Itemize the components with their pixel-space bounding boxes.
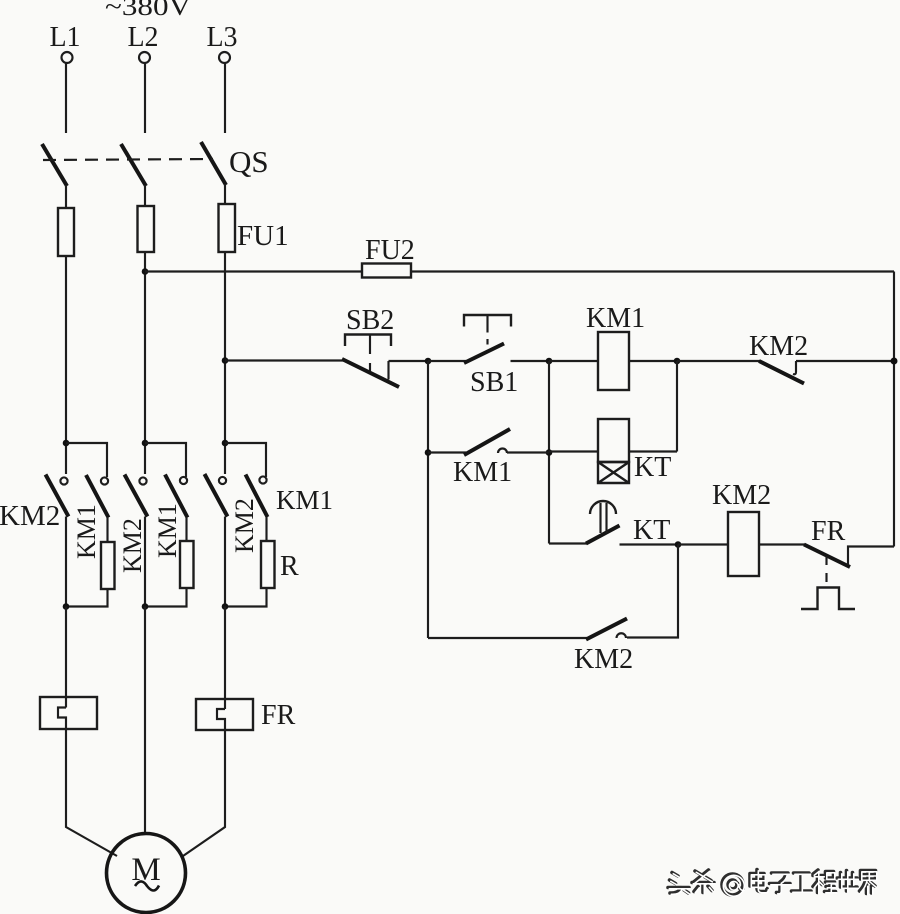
svg-text:FU1: FU1 bbox=[237, 220, 289, 252]
resistor branch2 bbox=[180, 541, 194, 588]
pushbutton SB2 NC blade bbox=[342, 359, 399, 387]
contact KM2 NC aux blade bbox=[586, 619, 627, 640]
wire L1 drop bbox=[65, 64, 67, 134]
contact FR stub bbox=[848, 547, 894, 565]
terminal L3 bbox=[219, 52, 230, 63]
svg-text:R: R bbox=[280, 551, 299, 582]
wire branch2 bottom bbox=[145, 588, 187, 607]
wire main2 lower bbox=[144, 517, 146, 607]
contact KT delayed blade bbox=[586, 526, 620, 544]
node L3 control tap bbox=[222, 357, 229, 364]
coil KT bbox=[598, 419, 629, 462]
wire QS1 to FU1a bbox=[65, 185, 67, 208]
junction right rail node bbox=[891, 358, 898, 365]
wire branch3 top bbox=[225, 443, 266, 477]
svg-text:FR: FR bbox=[261, 700, 296, 731]
contact KM2 main 3 fixed circle bbox=[219, 477, 226, 484]
FR heater box 2 bbox=[196, 699, 253, 730]
motor tilde bbox=[135, 881, 159, 890]
svg-text:KM2: KM2 bbox=[0, 500, 60, 532]
fuse FU2 bbox=[362, 264, 411, 278]
contact KM2 NC stub bbox=[793, 361, 796, 374]
svg-text:~380V: ~380V bbox=[105, 0, 191, 21]
wire L1 fuse to contact bank bbox=[65, 256, 67, 474]
pushbutton SB2 cap bbox=[345, 335, 391, 347]
junction main L3 bottom bbox=[222, 603, 229, 610]
junction main L2 bottom bbox=[142, 603, 149, 610]
contact KM2 main 2 fixed circle bbox=[139, 477, 146, 484]
wire vertical node B down bbox=[548, 361, 550, 544]
wire KT coil to vertical bbox=[629, 450, 677, 452]
FR heater box 1 bbox=[40, 697, 97, 729]
pushbutton SB2 fixed stub bbox=[387, 361, 389, 380]
wire vertical node C down bbox=[676, 361, 678, 452]
resistor branch1 bbox=[101, 542, 115, 589]
wire main1 lower bbox=[65, 517, 67, 607]
wire L3 fuse to contact bank bbox=[224, 252, 226, 474]
wire node A to SB1 bbox=[428, 360, 466, 362]
wire branch3 to resistor bbox=[265, 517, 267, 541]
wire node E corner to KT contact bbox=[549, 542, 587, 544]
wire L3 to FR heater bbox=[224, 607, 226, 710]
wire SB1 to node B bbox=[511, 360, 550, 362]
junction node A bbox=[425, 358, 432, 365]
junction node B bbox=[546, 358, 553, 365]
contact KT delay stems bbox=[601, 503, 607, 533]
contact KM1 branch2 fixed circle bbox=[180, 477, 187, 484]
terminal L1 bbox=[62, 52, 73, 63]
fuse FU1 a bbox=[58, 208, 74, 256]
contact KM2 NC blade bbox=[759, 361, 804, 384]
wire row D left bbox=[428, 637, 587, 639]
wire branch2 to resistor bbox=[185, 517, 187, 541]
wire branch1 top bbox=[66, 443, 107, 477]
wire KM2 coil to FR bbox=[759, 543, 805, 545]
wire L3 tap to SB2 bbox=[225, 359, 344, 361]
wire branch1 bottom bbox=[66, 589, 108, 607]
fuse FU1 b bbox=[138, 206, 155, 252]
wire node D to KM1 aux bbox=[428, 451, 466, 453]
switch QS blade 3 bbox=[201, 142, 226, 185]
wire node F to KM2 coil bbox=[678, 543, 728, 545]
QS linkage dashed line bbox=[43, 159, 213, 160]
pushbutton SB2 plunger bbox=[369, 335, 371, 372]
node L2 control tap bbox=[142, 268, 149, 275]
coil KT delay box bbox=[598, 462, 629, 483]
contact KM2 main 3 blade bbox=[205, 474, 228, 517]
svg-text:KM1: KM1 bbox=[72, 504, 101, 559]
contact KM2 aux fixed arc bbox=[617, 633, 627, 638]
switch QS blade 1 bbox=[42, 144, 67, 186]
junction node F bbox=[675, 541, 682, 548]
contact KM1 branch1 blade bbox=[86, 475, 109, 518]
pushbutton SB1 cap bbox=[464, 315, 511, 327]
wire KM2 NC to right rail bbox=[796, 360, 894, 362]
svg-text:KT: KT bbox=[634, 452, 671, 483]
wire main3 lower bbox=[224, 517, 226, 607]
wire node E to KT coil bbox=[549, 450, 598, 452]
svg-text:KM1: KM1 bbox=[276, 485, 333, 515]
svg-text:QS: QS bbox=[229, 144, 269, 179]
contact KM1 aux fixed arc bbox=[498, 449, 507, 454]
wire KM1 coil to node C bbox=[629, 360, 677, 362]
contact FR NC blade bbox=[804, 545, 850, 568]
svg-text:KM2: KM2 bbox=[749, 331, 808, 362]
svg-text:L3: L3 bbox=[206, 22, 237, 53]
contact KM1 branch1 fixed circle bbox=[101, 477, 108, 484]
FR heater element 2 bbox=[217, 709, 225, 730]
svg-text:SB2: SB2 bbox=[346, 305, 394, 336]
wire L3 drop bbox=[224, 64, 226, 134]
switch QS blade 2 bbox=[121, 144, 146, 186]
svg-text:SB1: SB1 bbox=[470, 367, 518, 398]
wire KM1 aux to node E bbox=[507, 451, 549, 453]
motor M circle bbox=[107, 834, 186, 913]
contact KM1 branch3 fixed circle bbox=[259, 476, 266, 483]
contact KT delay dome bbox=[590, 501, 616, 514]
contact FR reset symbol bbox=[801, 588, 855, 610]
wire branch1 to resistor bbox=[106, 517, 108, 542]
contact KM2 main 2 blade bbox=[125, 475, 148, 517]
contact KM2 main 1 blade bbox=[46, 475, 69, 517]
svg-text:KM2: KM2 bbox=[230, 498, 259, 553]
wire QS3 to FU1c bbox=[224, 184, 226, 204]
junction main L3 top bbox=[222, 440, 229, 447]
wire KT contact to node F bbox=[620, 543, 679, 545]
svg-text:KM2: KM2 bbox=[574, 644, 633, 675]
wire L3 heater to motor bbox=[183, 730, 225, 856]
junction node D bbox=[425, 449, 432, 456]
contact KM1 branch2 blade bbox=[165, 475, 188, 518]
wire node C to KM2 NC bbox=[677, 360, 760, 362]
svg-text:FR: FR bbox=[811, 516, 846, 547]
svg-text:KM2: KM2 bbox=[712, 480, 771, 511]
junction main L1 bottom bbox=[63, 603, 70, 610]
contact KM1 NO aux blade bbox=[464, 429, 510, 455]
coil KM1 bbox=[598, 332, 629, 390]
wire branch2 top bbox=[145, 443, 186, 477]
resistor branch3 R bbox=[261, 541, 275, 588]
wire node B to KM1 coil bbox=[549, 360, 598, 362]
svg-text:L2: L2 bbox=[127, 22, 158, 53]
wire vertical node A down bbox=[427, 361, 429, 638]
contact KM1 branch3 blade bbox=[246, 475, 268, 518]
wire control top row right bbox=[411, 270, 894, 272]
terminal L2 bbox=[139, 52, 150, 63]
pushbutton SB1 NO blade bbox=[464, 344, 504, 364]
junction node E bbox=[546, 449, 553, 456]
svg-text:KM1: KM1 bbox=[153, 503, 182, 558]
svg-text:L1: L1 bbox=[49, 22, 80, 53]
svg-text:KM1: KM1 bbox=[586, 303, 645, 334]
wire L2 drop bbox=[144, 64, 146, 134]
contact KM2 main 1 fixed circle bbox=[60, 477, 67, 484]
wire QS2 to FU1b bbox=[144, 185, 146, 206]
fuse FU1 c bbox=[219, 204, 236, 252]
coil KM2 bbox=[728, 512, 759, 576]
wire L2 fuse to contact bank bbox=[144, 252, 146, 474]
wire SB2 to node bbox=[389, 360, 429, 362]
wire L1 heater to motor bbox=[66, 729, 117, 856]
FR heater element 1 bbox=[58, 708, 66, 730]
junction node C bbox=[674, 358, 681, 365]
junction main L2 top bbox=[142, 440, 149, 447]
wire control top row left bbox=[145, 270, 362, 272]
wire branch3 bottom bbox=[225, 588, 267, 607]
wire L2 to motor bbox=[144, 607, 146, 835]
junction main L1 top bbox=[63, 440, 70, 447]
svg-text:KM2: KM2 bbox=[118, 518, 147, 573]
wire right rail bbox=[893, 272, 895, 547]
svg-text:KT: KT bbox=[633, 515, 670, 546]
wire row D right bbox=[627, 545, 678, 638]
svg-text:KM1: KM1 bbox=[453, 457, 512, 488]
pushbutton SB1 plunger bbox=[486, 315, 488, 345]
wire L1 to FR heater bbox=[65, 607, 67, 708]
svg-text:FU2: FU2 bbox=[365, 235, 415, 266]
contact FR reset link dashed bbox=[825, 556, 827, 582]
